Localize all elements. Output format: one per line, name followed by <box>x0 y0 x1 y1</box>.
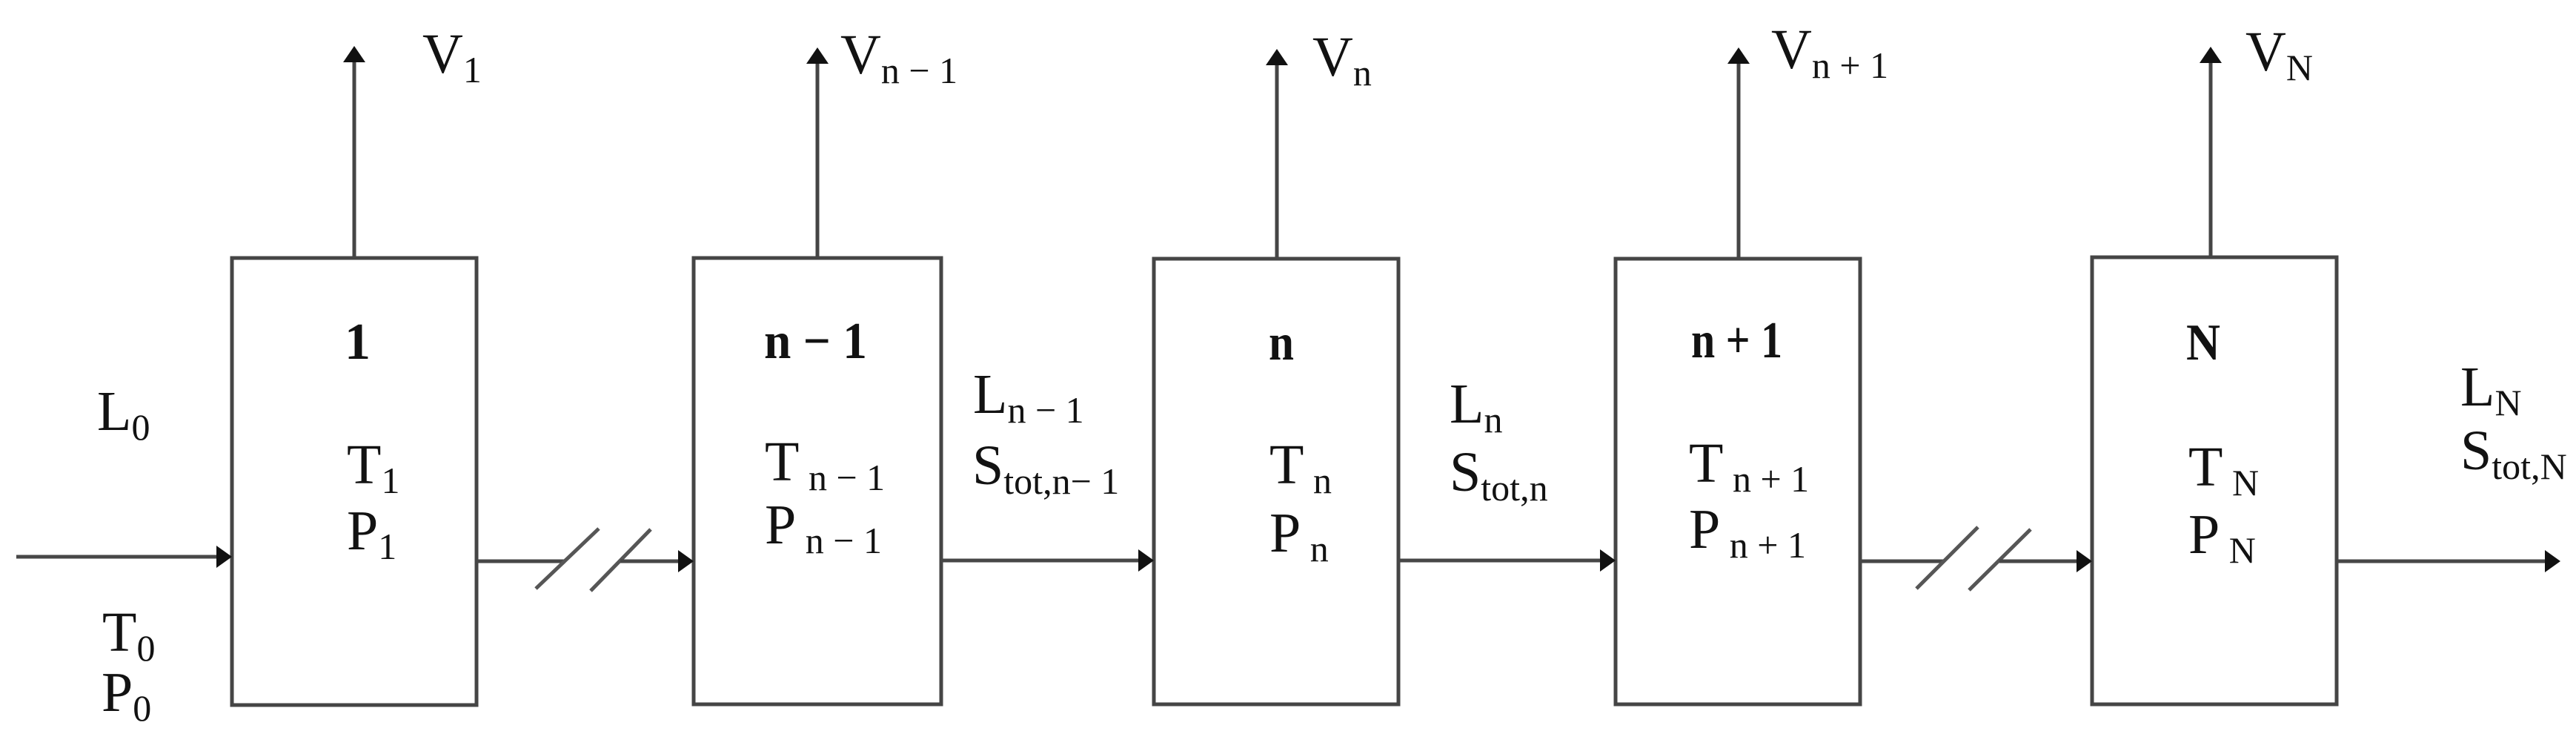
break slash 2b <box>1969 529 2031 590</box>
label T1 <box>347 434 399 501</box>
label VN <box>2245 21 2313 88</box>
stage number N <box>2186 314 2220 371</box>
stage number n-1 <box>764 313 867 370</box>
label LN <box>2460 356 2522 423</box>
svg-text:N: N <box>2186 314 2220 371</box>
svg-text:Stot,N: Stot,N <box>2460 420 2567 487</box>
svg-text:P0: P0 <box>102 661 151 729</box>
svg-text:Stot,n: Stot,n <box>1450 441 1548 509</box>
vapor arrow V1 <box>343 46 365 258</box>
stage box n <box>1154 259 1398 704</box>
label Vn-1 <box>840 24 957 91</box>
label Tn <box>1269 434 1332 501</box>
label Vn+1 <box>1771 19 1888 86</box>
stage box n-1 <box>694 258 941 704</box>
label Pn-1 <box>765 494 882 561</box>
svg-text:VN: VN <box>2245 21 2313 88</box>
stage box 1 <box>232 258 477 705</box>
vapor arrow Vn+1 <box>1727 47 1750 259</box>
label P0 <box>102 661 151 729</box>
label Pn+1 <box>1689 498 1806 566</box>
vapor arrow Vn-1 <box>806 47 829 258</box>
svg-text:L0: L0 <box>97 380 150 448</box>
label Stot,N <box>2460 420 2567 487</box>
label V1 <box>422 23 482 90</box>
break slash 1b <box>591 529 651 591</box>
svg-text:Vn + 1: Vn + 1 <box>1771 19 1888 86</box>
svg-text:n: n <box>1269 314 1294 371</box>
svg-text:1: 1 <box>345 314 371 371</box>
feed wire into stage 1 <box>16 546 232 568</box>
svg-text:LN: LN <box>2460 356 2522 423</box>
svg-text:n + 1: n + 1 <box>1691 312 1782 369</box>
stage number n+1 <box>1691 312 1782 369</box>
label Vn <box>1312 26 1372 93</box>
stage box N <box>2092 257 2337 704</box>
svg-text:n − 1: n − 1 <box>764 313 867 370</box>
label Tn+1 <box>1689 432 1809 500</box>
svg-text:Ln − 1: Ln − 1 <box>973 363 1084 431</box>
label T0 <box>102 601 155 669</box>
wire break to stage N <box>1999 550 2092 572</box>
break slash 1a <box>536 529 599 589</box>
svg-text:Vn: Vn <box>1312 26 1372 93</box>
wire stage n to stage n+1 <box>1398 549 1616 572</box>
svg-text:Stot,n− 1: Stot,n− 1 <box>972 434 1119 502</box>
svg-text:V1: V1 <box>422 23 482 90</box>
break slash 2a <box>1916 527 1978 589</box>
stage box n+1 <box>1616 259 1860 704</box>
label Ln-1 <box>973 363 1084 431</box>
label TN <box>2188 436 2259 503</box>
wire break to stage n-1 <box>620 550 694 572</box>
wire stage n-1 to stage n <box>941 549 1154 572</box>
label Pn <box>1269 502 1329 569</box>
vapor arrow Vn <box>1266 49 1288 259</box>
vapor arrow VN <box>2200 47 2222 257</box>
label L0 <box>97 380 150 448</box>
label Stot,n-1 <box>972 434 1119 502</box>
label Stot,n <box>1450 441 1548 509</box>
wire stage 1 to break <box>477 560 565 563</box>
stage number 1 <box>345 314 371 371</box>
stage number n <box>1269 314 1294 371</box>
label P1 <box>347 500 396 567</box>
svg-text:Ln: Ln <box>1450 373 1502 440</box>
product wire out of stage N <box>2338 550 2560 572</box>
wire stage n+1 to break <box>1860 560 1945 563</box>
svg-text:T0: T0 <box>102 601 155 669</box>
label Ln <box>1450 373 1502 440</box>
label PN <box>2188 503 2256 571</box>
svg-text:Vn − 1: Vn − 1 <box>840 24 957 91</box>
label Tn-1 <box>765 431 885 498</box>
